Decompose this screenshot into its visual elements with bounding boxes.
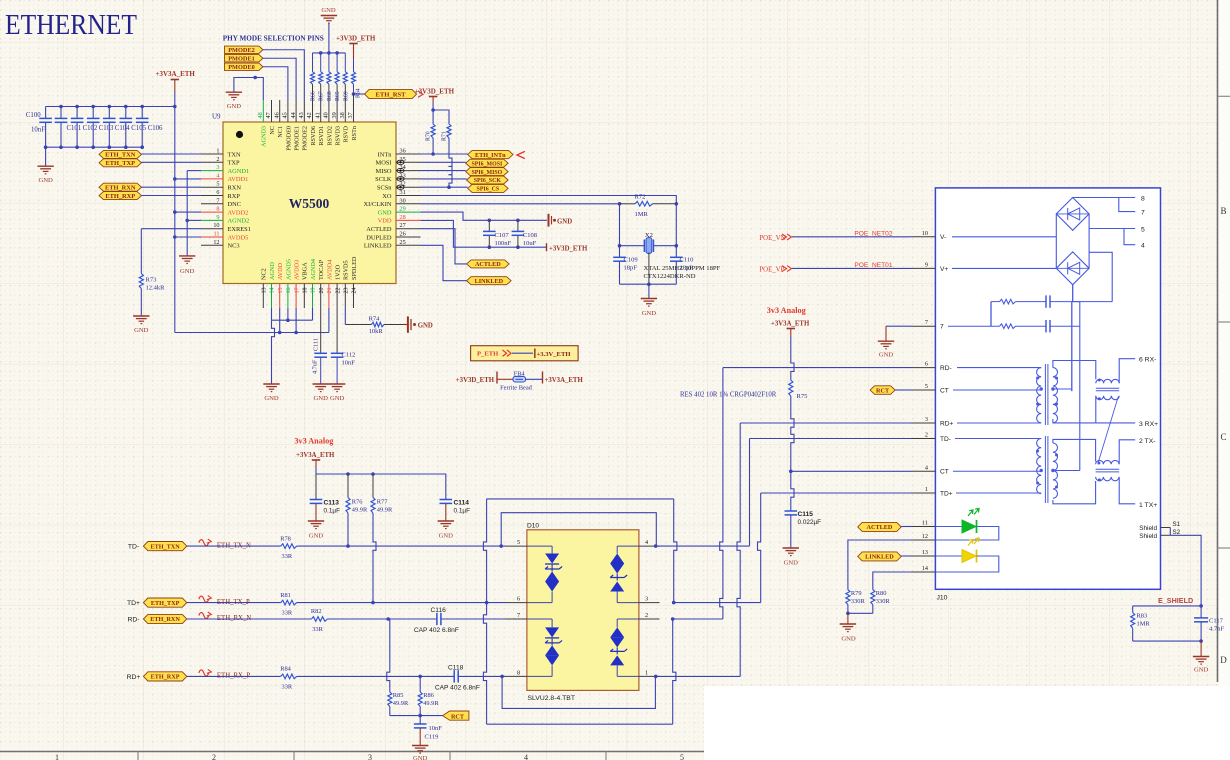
- capacitor C111 4.7uF on TOCAP: [320, 308, 322, 353]
- svg-text:7: 7: [517, 612, 520, 619]
- pin 21 AVDD4: [328, 284, 330, 309]
- svg-text:14: 14: [922, 565, 928, 572]
- svg-text:1MR: 1MR: [635, 211, 649, 218]
- junction AVDD row 7: [173, 210, 177, 214]
- wire VDD pin 28 to +3V3D rail: [421, 220, 547, 247]
- svg-text:4: 4: [1141, 243, 1145, 250]
- svg-text:C108: C108: [523, 232, 537, 239]
- svg-text:1: 1: [55, 753, 59, 760]
- svg-text:5: 5: [925, 383, 928, 390]
- svg-text:+3V3D_ETH: +3V3D_ETH: [415, 88, 455, 96]
- svg-text:W5500: W5500: [289, 196, 330, 211]
- svg-text:POE_NET02: POE_NET02: [854, 230, 892, 237]
- pin 27 ACTLED: [396, 228, 421, 230]
- pin 25 LINKLED: [396, 244, 421, 246]
- pin 37 RSTn: [353, 100, 355, 122]
- resistor R67: [320, 53, 322, 72]
- svg-text:MISO: MISO: [376, 168, 392, 175]
- pin 10 J10 V-: [911, 236, 935, 238]
- svg-text:AVDD: AVDD: [277, 262, 284, 280]
- svg-text:SPDLED: SPDLED: [351, 256, 358, 280]
- svg-text:V+: V+: [940, 266, 948, 273]
- svg-text:U9: U9: [212, 113, 221, 121]
- wire AGND pins join: [271, 308, 273, 320]
- pin 2 J10 TD-: [911, 438, 935, 440]
- net label ETH_RST: [354, 93, 365, 95]
- svg-text:C115: C115: [798, 511, 814, 518]
- choke RX bottom: [1096, 396, 1119, 400]
- svg-text:7: 7: [216, 197, 219, 204]
- svg-text:DUPLED: DUPLED: [366, 234, 392, 241]
- pin 20 TOCAP: [320, 284, 322, 309]
- pin 13 J10: [911, 555, 935, 557]
- transformer TX secondary: [1053, 443, 1058, 498]
- pin 29 GND: [396, 211, 421, 213]
- svg-text:43: 43: [298, 112, 305, 118]
- svg-text:SPI6_MISO: SPI6_MISO: [472, 170, 503, 176]
- pin 4 AVDD1: [201, 178, 223, 180]
- wire V- to bridge: [952, 236, 1056, 238]
- svg-text:VDD: VDD: [378, 218, 392, 225]
- svg-text:R72: R72: [635, 193, 646, 200]
- junction pullup split: [431, 108, 435, 112]
- RC snubber row 2 (pin 7): [948, 325, 1000, 327]
- wire RX_N row to C116: [327, 618, 437, 620]
- ground C119: [412, 745, 428, 747]
- net label ETH_TXP: [143, 598, 186, 607]
- svg-text:20: 20: [319, 288, 325, 294]
- svg-text:R81: R81: [280, 592, 291, 599]
- svg-text:ETH_RXN: ETH_RXN: [105, 184, 136, 191]
- svg-text:Shield: Shield: [1139, 525, 1157, 532]
- svg-text:2 TX-: 2 TX-: [1139, 438, 1156, 445]
- resistor R66: [312, 53, 314, 72]
- svg-text:POE_NET01: POE_NET01: [854, 262, 892, 269]
- resistor R75: [789, 380, 793, 396]
- wire TX_P row to D10 pin 6: [297, 602, 506, 604]
- svg-text:10nF: 10nF: [429, 725, 443, 732]
- net label ETH_TXN: [143, 542, 186, 551]
- svg-text:TOCAP: TOCAP: [318, 259, 325, 280]
- svg-text:33R: 33R: [312, 626, 323, 633]
- svg-text:+3V3D_ETH: +3V3D_ETH: [456, 377, 495, 384]
- svg-text:49.9R: 49.9R: [377, 507, 393, 514]
- capacitor C118 6.8nF: [453, 670, 455, 682]
- resistor R79 330R: [846, 590, 850, 605]
- wire TD- row to J10: [750, 438, 912, 440]
- capacitor C104: [108, 107, 110, 119]
- svg-text:R64: R64: [356, 88, 362, 98]
- port P_ETH to +3.3V_ETH: [471, 346, 578, 361]
- resistor R69: [344, 53, 346, 72]
- svg-text:XO: XO: [382, 193, 392, 200]
- svg-text:D10: D10: [527, 523, 539, 530]
- svg-text:RXN: RXN: [228, 185, 242, 192]
- svg-text:12: 12: [922, 533, 928, 540]
- svg-text:ETH_TXN: ETH_TXN: [150, 543, 180, 550]
- capacitor C116 6.8nF: [436, 613, 438, 625]
- resistor R77 49.9R: [372, 474, 374, 498]
- pin 9 J10 V+: [911, 267, 935, 269]
- svg-text:GND: GND: [841, 636, 856, 643]
- svg-text:5: 5: [680, 753, 684, 760]
- pin 46 NC1: [279, 100, 281, 122]
- pin stubs D10 5/4: [506, 545, 527, 547]
- svg-text:GND: GND: [439, 533, 454, 540]
- svg-text:3: 3: [925, 416, 928, 423]
- svg-text:28: 28: [400, 214, 406, 221]
- junction AVDD row 10: [173, 235, 177, 239]
- wire AVDD branch: [175, 236, 201, 238]
- pin 17 AVDD3: [295, 284, 297, 309]
- svg-text:29: 29: [400, 206, 406, 213]
- wire snubber bracket: [990, 302, 992, 327]
- pin 40 RSVD2: [328, 100, 330, 122]
- svg-text:GND: GND: [264, 395, 279, 402]
- svg-text:4.7nF: 4.7nF: [1209, 626, 1224, 633]
- svg-text:C116: C116: [431, 607, 447, 614]
- svg-text:23: 23: [344, 288, 350, 294]
- pin 12 J10: [911, 539, 935, 541]
- TVS pair channel A (pins 4-3 right): [616, 546, 618, 553]
- svg-text:0.022µF: 0.022µF: [798, 519, 822, 526]
- wire MISO: [421, 170, 466, 172]
- wire pin4 row extension: [749, 439, 751, 547]
- wire shield RC top: [1133, 605, 1201, 607]
- pin 8 AVDD2: [201, 211, 223, 213]
- svg-text:3v3 Analog: 3v3 Analog: [294, 437, 334, 446]
- svg-text:0.1µF: 0.1µF: [454, 508, 471, 515]
- svg-text:AGND5: AGND5: [285, 259, 292, 280]
- wire +3V3A vertical rail to AVDD pins: [174, 107, 176, 333]
- svg-text:LINKLED: LINKLED: [475, 278, 504, 285]
- svg-text:R79: R79: [851, 590, 862, 597]
- svg-text:49.9R: 49.9R: [423, 700, 439, 707]
- pin 38 RSVD: [344, 100, 346, 122]
- svg-text:AVDD4: AVDD4: [326, 260, 333, 280]
- svg-text:R65: R65: [335, 91, 341, 101]
- svg-text:26: 26: [400, 231, 406, 238]
- svg-text:7: 7: [925, 319, 928, 326]
- IC U9 W5500 body: [223, 122, 396, 284]
- wire bridge rails: [1055, 214, 1057, 268]
- wire AGND1/AGND2 to ground: [187, 170, 201, 172]
- wire loop pins 5-4 over D10: [501, 513, 656, 546]
- resistor R72 1MR: [618, 202, 622, 206]
- svg-text:11: 11: [214, 231, 220, 238]
- svg-text:D: D: [1220, 655, 1227, 665]
- pin 43 PMODE2: [303, 100, 305, 122]
- svg-text:R82: R82: [311, 608, 322, 615]
- pin 41 RSVD1: [320, 100, 322, 122]
- svg-text:49.9R: 49.9R: [393, 700, 409, 707]
- net label ACTLED (J10): [858, 522, 902, 531]
- svg-text:LINKLED: LINKLED: [865, 554, 894, 561]
- svg-text:42: 42: [306, 112, 313, 118]
- svg-text:TD-: TD-: [128, 544, 139, 551]
- svg-text:AVDD2: AVDD2: [228, 209, 249, 216]
- pin 6 J10 RD-: [911, 367, 935, 369]
- svg-text:3: 3: [216, 164, 219, 171]
- svg-text:CT: CT: [940, 469, 949, 476]
- pin 19 AGND4: [312, 284, 314, 309]
- svg-text:SCLK: SCLK: [375, 176, 392, 183]
- svg-text:45: 45: [282, 112, 289, 118]
- svg-text:C113: C113: [324, 500, 340, 507]
- svg-text:S1: S1: [1173, 521, 1181, 528]
- capacitor C105: [125, 107, 127, 119]
- svg-text:RD-: RD-: [940, 365, 952, 372]
- net label SPI6_MOSI: [466, 159, 508, 167]
- svg-text:+3.3V_ETH: +3.3V_ETH: [537, 351, 572, 358]
- junction D10 pin8: [500, 675, 504, 679]
- wire EXRES1 to R73: [141, 228, 201, 230]
- wire LINKLED: [421, 245, 467, 280]
- svg-text:NC3: NC3: [228, 243, 240, 250]
- pin 1 J10 TD+: [911, 492, 935, 494]
- svg-text:330R: 330R: [876, 598, 891, 605]
- svg-text:PMODE2: PMODE2: [302, 126, 309, 151]
- svg-text:ACTLED: ACTLED: [366, 226, 392, 233]
- svg-text:ACTLED: ACTLED: [867, 524, 893, 531]
- wire cap bank bottom rail: [46, 146, 143, 148]
- svg-text:10nF: 10nF: [31, 127, 45, 134]
- svg-text:AGND1: AGND1: [228, 168, 250, 175]
- svg-text:GND: GND: [418, 323, 433, 330]
- svg-text:C: C: [1220, 432, 1226, 442]
- wire PMODE1 to chip: [263, 58, 296, 100]
- svg-text:C104: C104: [115, 125, 130, 132]
- resistor R84 33R: [281, 674, 297, 679]
- svg-text:33R: 33R: [282, 610, 293, 617]
- transformer RX core: [1044, 364, 1046, 425]
- pin 3 AGND1: [201, 170, 223, 172]
- wire bridge bottom feed: [1072, 285, 1074, 302]
- svg-text:13: 13: [262, 288, 268, 294]
- svg-text:C111: C111: [312, 338, 319, 351]
- power port +3V3D_ETH bar: [546, 243, 548, 251]
- svg-text:2: 2: [212, 753, 216, 760]
- wire TX_N row to D10 pin 5: [297, 545, 506, 547]
- svg-text:R67: R67: [319, 91, 325, 101]
- pin 35 MOSI: [396, 161, 421, 163]
- wire R77 to TX_P row: [373, 513, 376, 603]
- svg-text:RSVD: RSVD: [343, 125, 350, 142]
- net label SPI6_MISO: [466, 168, 508, 176]
- svg-text:VBGA: VBGA: [302, 262, 309, 280]
- power port GND bar: [548, 214, 550, 227]
- svg-text:R78: R78: [280, 535, 291, 542]
- svg-text:E_SHIELD: E_SHIELD: [1158, 596, 1193, 605]
- svg-text:4: 4: [216, 172, 219, 179]
- wire bridge out 7: [1119, 198, 1135, 212]
- junction D10 pin2: [671, 617, 675, 621]
- svg-text:14: 14: [270, 288, 276, 294]
- net label LINKLED (J10): [858, 552, 902, 561]
- svg-text:CTX1224DKR-ND: CTX1224DKR-ND: [644, 273, 696, 280]
- power port GND bar (R74): [407, 316, 409, 332]
- svg-text:ETH_INTn: ETH_INTn: [475, 152, 506, 159]
- wire CT chain to C115: [791, 471, 794, 511]
- pin 5 RXN: [201, 186, 223, 188]
- svg-text:1: 1: [645, 669, 648, 676]
- pin 39 RSVD3: [336, 100, 338, 122]
- pin stubs D10 6/3: [506, 602, 527, 604]
- transformer RX primary: [957, 367, 1041, 369]
- svg-text:AVDD3: AVDD3: [294, 260, 301, 280]
- svg-text:R83: R83: [1137, 613, 1148, 620]
- svg-text:1V2O: 1V2O: [335, 264, 342, 280]
- svg-text:+3V3A_ETH: +3V3A_ETH: [156, 70, 196, 78]
- wire RD+ row to J10: [740, 422, 911, 424]
- svg-text:GND: GND: [38, 177, 53, 184]
- svg-text:10kR: 10kR: [369, 328, 384, 335]
- ground C111: [313, 383, 329, 385]
- svg-text:30: 30: [400, 197, 406, 204]
- svg-text:+3V3D_ETH: +3V3D_ETH: [336, 35, 376, 43]
- svg-text:R75: R75: [797, 393, 808, 400]
- wire SCLK: [421, 178, 467, 180]
- net label PMODE0: [225, 63, 263, 70]
- wire pin1 row extension: [655, 675, 740, 677]
- wire GND pin 29 to cap rail: [421, 212, 548, 220]
- resistor R78 33R: [281, 544, 297, 549]
- wire pin 14 to R80: [873, 572, 911, 590]
- svg-text:POE_VP: POE_VP: [759, 267, 784, 274]
- capacitor C109 18pF: [613, 256, 626, 258]
- power text +3V3A_ETH (FB4 right): [542, 372, 544, 384]
- pin stubs D10 8/1: [506, 675, 527, 677]
- crossover diagonal: [1099, 397, 1119, 462]
- bridge rectifier top: [1056, 198, 1089, 231]
- ground chip AGND: [263, 383, 279, 385]
- svg-text:C110: C110: [680, 256, 694, 263]
- svg-text:XTAL 25MHZ 30PPM 18PF: XTAL 25MHZ 30PPM 18PF: [644, 265, 721, 272]
- svg-text:9: 9: [216, 214, 219, 221]
- svg-text:RD+: RD+: [940, 420, 954, 427]
- capacitor C113 0.1uF: [315, 474, 317, 500]
- svg-text:RD-: RD-: [127, 617, 139, 624]
- pin 23 RSVD5: [344, 284, 346, 309]
- junction D10 pin3: [672, 601, 676, 605]
- wire bridge out 5: [1089, 228, 1135, 230]
- net label RCT: [443, 711, 469, 720]
- differential pair marker: [199, 540, 209, 546]
- svg-text:4: 4: [645, 539, 648, 546]
- differential pair marker: [199, 613, 209, 619]
- svg-text:19: 19: [311, 288, 317, 294]
- pin 28 VDD: [396, 219, 421, 221]
- svg-text:TD-: TD-: [940, 436, 951, 443]
- sheet white margin right of border: [1219, 0, 1230, 760]
- pin 11 AVDD5: [201, 236, 223, 238]
- svg-text:PMODE0: PMODE0: [285, 126, 292, 151]
- svg-text:C107: C107: [495, 232, 510, 239]
- svg-text:ETH_RXP: ETH_RXP: [105, 193, 135, 200]
- ground LED resistors: [840, 623, 856, 625]
- svg-text:DNC: DNC: [228, 201, 242, 208]
- transformer TX primary: [955, 438, 1041, 440]
- svg-text:15: 15: [278, 288, 284, 294]
- svg-text:17: 17: [294, 288, 300, 294]
- pin stubs D10 7/2: [506, 618, 527, 620]
- transformer TX core: [1044, 436, 1046, 503]
- svg-text:18: 18: [303, 288, 309, 294]
- net label ETH_RXP: [143, 672, 186, 681]
- svg-text:4: 4: [524, 753, 528, 760]
- wire PMODE2 to chip: [263, 50, 304, 100]
- svg-text:1: 1: [216, 148, 219, 155]
- svg-text:R68: R68: [327, 91, 333, 101]
- pin 24 SPDLED: [353, 284, 355, 309]
- svg-text:GND: GND: [378, 209, 392, 216]
- svg-text:R73: R73: [146, 277, 157, 284]
- wire POE_NET01 to J10 pin 9: [792, 267, 911, 269]
- wire C118 to D10 pin 8: [458, 675, 506, 677]
- resistor R65: [336, 53, 338, 72]
- svg-text:ETH_RXN: ETH_RXN: [150, 616, 180, 623]
- svg-text:24: 24: [352, 288, 358, 294]
- capacitor C112 10nF on 1V2O: [336, 308, 338, 353]
- svg-text:2: 2: [645, 612, 648, 619]
- sheet white cut bottom-right: [704, 686, 1230, 760]
- wire LED resistors to ground: [848, 612, 873, 614]
- bridge rectifier bottom: [1056, 252, 1089, 285]
- ground J10 pin 7: [886, 325, 911, 327]
- wire POE_NET02 to J10 pin 10: [792, 236, 911, 238]
- junction CT: [789, 470, 793, 474]
- svg-text:7: 7: [940, 324, 944, 331]
- pin 30 XI/CLKIN: [396, 203, 421, 205]
- svg-text:6: 6: [925, 361, 928, 368]
- choke RX top: [1096, 379, 1119, 383]
- differential pair marker: [199, 670, 209, 676]
- pin 11 J10: [911, 526, 935, 528]
- net label ETH_INTn: [468, 150, 513, 158]
- svg-text:+3V3A_ETH: +3V3A_ETH: [545, 377, 584, 384]
- svg-text:R69: R69: [343, 91, 349, 101]
- svg-text:1 TX+: 1 TX+: [1139, 502, 1157, 509]
- svg-text:P_ETH: P_ETH: [477, 351, 499, 358]
- svg-text:11: 11: [922, 520, 928, 527]
- wire pin3 row extension: [674, 602, 761, 604]
- svg-text:10: 10: [922, 230, 928, 237]
- svg-text:10: 10: [213, 222, 219, 229]
- wire ETH_TX_P to R81: [187, 602, 281, 604]
- svg-text:GND: GND: [784, 560, 799, 567]
- svg-text:B: B: [1220, 206, 1226, 216]
- svg-text:AGND4: AGND4: [310, 259, 317, 280]
- pin 26 DUPLED: [396, 236, 421, 238]
- wire pin 12 to R79: [848, 540, 911, 590]
- svg-text:Shield: Shield: [1139, 533, 1157, 540]
- svg-text:10nF: 10nF: [342, 360, 356, 367]
- wire ETH_RXP to pin 6: [142, 195, 202, 197]
- svg-text:8: 8: [517, 669, 520, 676]
- ground crystal: [648, 284, 650, 298]
- svg-text:R86: R86: [423, 692, 434, 699]
- svg-text:Ferrite Bead: Ferrite Bead: [500, 385, 533, 392]
- svg-text:6: 6: [216, 189, 219, 196]
- svg-text:44: 44: [290, 112, 297, 118]
- svg-text:RCT: RCT: [451, 713, 465, 720]
- svg-text:C100: C100: [26, 112, 41, 119]
- wire PMODE0 to chip: [263, 67, 288, 100]
- net label SPI6_SCK: [467, 176, 509, 184]
- wire ETH_TXN to pin 1: [142, 153, 202, 155]
- svg-text:6: 6: [517, 596, 520, 603]
- svg-text:PMODE0: PMODE0: [228, 64, 255, 71]
